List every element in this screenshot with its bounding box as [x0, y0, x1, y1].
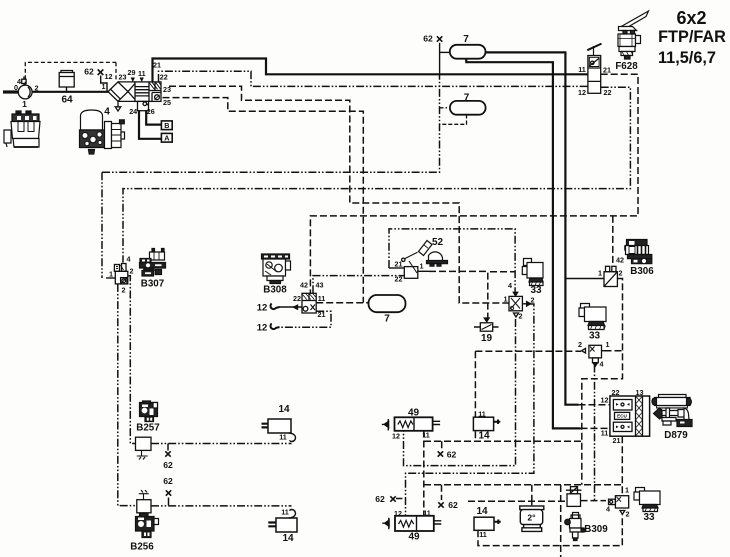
svg-text:2°: 2°	[527, 513, 536, 523]
svg-text:21: 21	[613, 436, 621, 445]
svg-text:24: 24	[129, 107, 137, 116]
svg-text:2: 2	[626, 510, 630, 519]
svg-text:42: 42	[616, 256, 624, 265]
svg-text:33: 33	[530, 285, 542, 296]
svg-text:2: 2	[130, 267, 134, 276]
svg-text:B307: B307	[141, 279, 165, 290]
svg-text:B: B	[164, 121, 169, 130]
svg-text:11: 11	[422, 431, 430, 440]
svg-text:14: 14	[478, 431, 490, 442]
svg-text:FTP/FAR: FTP/FAR	[658, 28, 726, 46]
svg-text:21: 21	[603, 66, 611, 75]
svg-text:49: 49	[408, 532, 420, 543]
svg-text:11: 11	[423, 509, 431, 518]
svg-text:64: 64	[61, 95, 73, 106]
svg-text:62: 62	[163, 476, 173, 486]
svg-text:43: 43	[316, 281, 324, 290]
svg-text:11: 11	[478, 410, 486, 419]
svg-text:22: 22	[395, 275, 403, 284]
svg-text:B306: B306	[630, 266, 654, 277]
svg-text:14: 14	[278, 404, 290, 415]
svg-text:12: 12	[394, 509, 402, 518]
svg-text:22: 22	[293, 294, 301, 303]
svg-text:2: 2	[35, 84, 39, 93]
svg-text:12: 12	[392, 432, 400, 441]
svg-text:1: 1	[109, 270, 113, 279]
svg-text:33: 33	[589, 331, 601, 342]
svg-text:1: 1	[22, 99, 27, 109]
svg-text:1: 1	[504, 295, 508, 304]
svg-text:14: 14	[476, 506, 488, 517]
svg-text:7: 7	[384, 314, 390, 325]
svg-text:33: 33	[643, 512, 655, 523]
svg-text:11: 11	[578, 65, 586, 74]
svg-text:1: 1	[606, 340, 610, 349]
svg-text:4: 4	[600, 360, 604, 369]
svg-text:12: 12	[257, 303, 268, 314]
svg-text:11: 11	[279, 433, 287, 442]
svg-text:2: 2	[531, 296, 535, 305]
svg-text:1: 1	[598, 269, 602, 278]
svg-text:1: 1	[625, 486, 629, 495]
svg-text:11: 11	[479, 530, 487, 539]
svg-text:12: 12	[601, 396, 609, 405]
svg-text:2: 2	[122, 286, 126, 295]
svg-text:6x2: 6x2	[676, 8, 706, 28]
svg-text:12: 12	[105, 72, 113, 81]
svg-text:22: 22	[604, 88, 612, 97]
svg-text:F628: F628	[615, 61, 638, 72]
svg-text:49: 49	[408, 408, 420, 419]
svg-text:7: 7	[463, 34, 469, 45]
svg-text:52: 52	[432, 237, 444, 248]
svg-text:22: 22	[160, 72, 168, 81]
svg-text:13: 13	[636, 388, 644, 397]
svg-text:4: 4	[127, 255, 131, 264]
svg-text:29: 29	[128, 68, 136, 77]
svg-text:B308: B308	[263, 285, 287, 296]
svg-text:62: 62	[84, 67, 94, 77]
svg-text:2: 2	[578, 340, 582, 349]
svg-text:62: 62	[375, 494, 385, 504]
svg-text:62: 62	[448, 500, 458, 510]
svg-text:22: 22	[612, 388, 620, 397]
svg-text:11,5/6,7: 11,5/6,7	[658, 49, 716, 67]
svg-text:11: 11	[281, 508, 289, 517]
svg-text:B256: B256	[130, 542, 154, 553]
svg-text:42: 42	[300, 281, 308, 290]
svg-text:11: 11	[318, 294, 326, 303]
svg-text:25: 25	[163, 98, 171, 107]
svg-text:1: 1	[102, 82, 106, 91]
svg-text:62: 62	[163, 460, 173, 470]
svg-text:23: 23	[119, 73, 127, 82]
svg-text:21: 21	[318, 310, 326, 319]
svg-text:11: 11	[138, 69, 146, 78]
svg-text:4: 4	[104, 107, 110, 118]
svg-text:4: 4	[17, 77, 21, 86]
svg-text:1: 1	[420, 262, 424, 271]
svg-text:2: 2	[619, 269, 623, 278]
svg-text:12: 12	[257, 323, 268, 334]
svg-text:62: 62	[423, 34, 433, 44]
svg-text:B257: B257	[136, 423, 160, 434]
svg-text:62: 62	[447, 450, 457, 460]
svg-text:11: 11	[601, 429, 609, 438]
svg-text:12: 12	[578, 88, 586, 97]
svg-text:4: 4	[606, 505, 610, 514]
svg-text:B309: B309	[584, 524, 608, 535]
svg-text:14: 14	[282, 533, 294, 544]
svg-text:26: 26	[147, 107, 155, 116]
svg-text:19: 19	[481, 333, 493, 344]
svg-text:7: 7	[464, 93, 470, 104]
svg-text:21: 21	[395, 260, 403, 269]
svg-text:4: 4	[508, 281, 512, 290]
svg-text:21: 21	[153, 60, 161, 69]
svg-text:2: 2	[519, 312, 523, 321]
svg-text:A: A	[164, 134, 169, 143]
svg-text:ECU: ECU	[617, 414, 627, 419]
svg-text:23: 23	[163, 85, 171, 94]
svg-text:D879: D879	[664, 430, 688, 441]
